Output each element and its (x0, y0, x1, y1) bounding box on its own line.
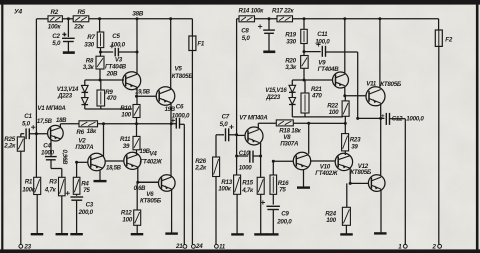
svg-text:0,96В: 0,96В (61, 150, 67, 166)
svg-text:С4: С4 (43, 142, 51, 149)
svg-text:R3: R3 (49, 179, 57, 186)
svg-text:4,7к: 4,7к (241, 187, 254, 194)
svg-text:R1: R1 (25, 179, 33, 186)
svg-text:С8: С8 (241, 27, 249, 34)
svg-text:R14 100к: R14 100к (239, 7, 265, 14)
svg-text:С10: С10 (239, 150, 250, 157)
svg-text:0,6В: 0,6В (134, 186, 147, 192)
svg-text:75: 75 (279, 186, 286, 193)
svg-text:100,0: 100,0 (315, 38, 330, 45)
svg-text:39: 39 (123, 143, 130, 150)
svg-text:17,5В: 17,5В (37, 119, 53, 125)
svg-text:С2: С2 (52, 33, 60, 40)
svg-text:18В: 18В (56, 118, 67, 124)
svg-text:КТ805Б: КТ805Б (172, 73, 194, 80)
svg-text:КТ805Б: КТ805Б (350, 169, 372, 176)
svg-text:200,0: 200,0 (276, 218, 292, 225)
svg-text:R15: R15 (242, 179, 253, 186)
svg-text:С11: С11 (317, 31, 328, 38)
svg-text:ГТ404В: ГТ404В (318, 66, 340, 73)
svg-text:V11: V11 (366, 80, 377, 87)
svg-text:ГТ402Ж: ГТ402Ж (315, 170, 339, 177)
svg-text:2,2к: 2,2к (194, 165, 207, 172)
svg-text:Д223: Д223 (265, 94, 281, 101)
svg-text:19,5В: 19,5В (135, 90, 151, 96)
svg-text:R5: R5 (78, 9, 86, 16)
svg-text:330: 330 (286, 38, 296, 45)
svg-text:4,7к: 4,7к (44, 186, 57, 193)
svg-text:КТ805Б: КТ805Б (140, 197, 162, 204)
svg-text:С5: С5 (112, 33, 120, 40)
svg-text:5,0: 5,0 (22, 120, 31, 127)
svg-text:23: 23 (23, 244, 31, 251)
svg-text:R23: R23 (350, 136, 361, 143)
svg-text:1000,0: 1000,0 (406, 115, 424, 122)
svg-text:5,0: 5,0 (220, 121, 229, 128)
svg-text:39: 39 (351, 143, 358, 150)
svg-text:20В: 20В (106, 70, 118, 77)
svg-text:R19: R19 (285, 31, 296, 38)
svg-text:18к: 18к (87, 128, 97, 135)
svg-text:1000: 1000 (41, 149, 55, 156)
svg-text:С7: С7 (222, 113, 230, 120)
svg-text:R6: R6 (76, 129, 84, 136)
svg-text:1000: 1000 (239, 164, 253, 171)
svg-text:3,3к: 3,3к (83, 64, 95, 71)
svg-text:R2: R2 (51, 9, 59, 16)
svg-text:100: 100 (121, 112, 131, 119)
svg-text:П307А: П307А (280, 140, 299, 147)
svg-text:П307А: П307А (75, 144, 94, 151)
svg-text:470: 470 (106, 95, 117, 102)
svg-text:11: 11 (219, 243, 226, 250)
svg-text:2,2к: 2,2к (3, 142, 16, 149)
svg-text:С1: С1 (24, 113, 32, 120)
svg-text:200,0: 200,0 (78, 209, 94, 216)
svg-text:100: 100 (326, 217, 336, 224)
svg-text:22к: 22к (73, 23, 84, 30)
svg-text:100,0: 100,0 (111, 42, 126, 49)
svg-text:330: 330 (84, 42, 94, 49)
svg-text:У4: У4 (14, 8, 22, 15)
svg-text:V4: V4 (150, 151, 158, 158)
svg-text:F2: F2 (445, 36, 453, 43)
svg-text:V7 МП40А: V7 МП40А (239, 114, 268, 121)
svg-text:18,5В: 18,5В (106, 165, 122, 171)
svg-text:R17 22к: R17 22к (272, 7, 294, 14)
svg-text:F1: F1 (197, 40, 205, 47)
svg-text:КТ805Б: КТ805Б (380, 81, 402, 88)
svg-text:V1 МП40А: V1 МП40А (37, 105, 66, 112)
svg-text:5,0: 5,0 (242, 35, 251, 42)
svg-text:75: 75 (83, 187, 90, 194)
svg-text:5,0: 5,0 (52, 40, 61, 47)
svg-text:Д223: Д223 (57, 93, 73, 100)
svg-text:С12: С12 (392, 115, 403, 122)
svg-text:3,3к: 3,3к (285, 64, 297, 71)
svg-text:470: 470 (311, 92, 322, 99)
svg-text:V3: V3 (115, 56, 123, 63)
svg-text:ГТ402Ж: ГТ402Ж (140, 159, 164, 166)
svg-text:100: 100 (122, 217, 132, 224)
svg-text:V5: V5 (175, 66, 183, 73)
svg-text:R7: R7 (87, 34, 95, 41)
svg-text:100к: 100к (218, 185, 232, 192)
svg-text:С9: С9 (281, 210, 289, 217)
svg-text:21: 21 (175, 243, 183, 250)
svg-text:100к: 100к (48, 23, 62, 30)
svg-text:100: 100 (329, 109, 339, 116)
svg-text:24: 24 (195, 243, 203, 250)
svg-text:1000,0: 1000,0 (172, 112, 190, 119)
svg-text:С6: С6 (176, 104, 184, 111)
svg-text:100к: 100к (22, 186, 36, 193)
svg-text:С3: С3 (86, 201, 94, 208)
svg-text:R12: R12 (121, 210, 132, 217)
svg-text:38В: 38В (132, 11, 144, 18)
